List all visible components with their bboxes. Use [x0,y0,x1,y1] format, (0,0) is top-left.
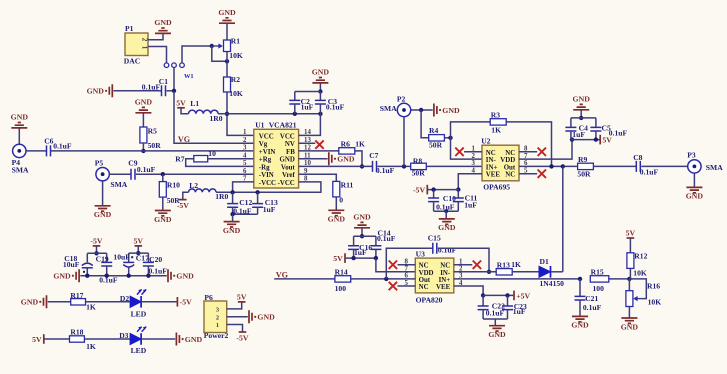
svg-text:50R: 50R [577,170,591,179]
wire R13 to D1 [512,271,539,273]
capacitor C22 0.1uF [478,295,505,319]
wire U2 pin4 to -5V rail [458,174,482,190]
wire output down to D1 [562,166,564,271]
node R3 output [549,164,553,168]
resistor R6 1K [339,139,365,154]
svg-text:R5: R5 [148,126,157,135]
svg-text:2: 2 [141,38,149,42]
svg-text:W1: W1 [184,73,194,80]
power port GND above P4 [11,113,29,128]
wire U1 pin8 to -VCC rail [216,182,321,192]
wire C8 to P3 [641,165,687,167]
wire top bus C2 C3 [295,91,321,93]
svg-text:L2: L2 [189,181,198,190]
svg-text:10K: 10K [229,89,243,98]
wire R14 to U3 pin6 [351,278,416,280]
wire R7 right to U1 pin4 [208,158,254,160]
svg-text:C20: C20 [149,255,162,264]
wire C14 C16 bottom bus [346,257,376,259]
wire P6 pin3 to 5V [227,302,242,309]
svg-text:R18: R18 [70,327,83,336]
wire node to R16 [628,279,630,291]
svg-text:R11: R11 [341,181,354,190]
svg-text:GND: GND [328,215,346,224]
svg-text:0.1uF: 0.1uF [640,168,659,177]
node C15 IN- [487,270,491,274]
svg-text:1K: 1K [491,126,501,135]
wire GND to R17 [48,301,71,303]
svg-text:0.1uF: 0.1uF [53,141,72,150]
svg-text:NC: NC [419,263,429,270]
capacitor C13 1uF [252,192,278,214]
svg-text:OPA820: OPA820 [416,296,443,305]
svg-text:C7: C7 [369,151,378,160]
svg-text:Vg: Vg [259,141,268,148]
svg-text:-5V: -5V [180,298,192,307]
svg-text:50R: 50R [148,141,162,150]
svg-text:0.1uF: 0.1uF [326,103,345,112]
svg-text:R10: R10 [167,180,180,189]
wire GND to top bus [361,228,363,236]
resistor R13 1K [496,260,521,275]
svg-text:GND: GND [154,18,172,27]
svg-text:GND: GND [185,335,203,344]
svg-text:IN+: IN+ [486,164,498,171]
svg-text:NC: NC [486,150,496,157]
resistor R8 50R [411,157,427,178]
capacitor C17 10uF polarized [113,253,149,276]
svg-text:P6: P6 [204,293,213,302]
capacitor C7 0.1uF [369,151,394,175]
wire R10 to GND [162,197,164,210]
wire R17 to D2 [86,301,131,303]
power port GND left of cap bank [53,269,79,282]
wire P6 pin2 to GND [227,316,248,318]
svg-text:Out: Out [419,277,431,284]
svg-text:5V: 5V [626,229,636,238]
svg-text:0.1uF: 0.1uF [377,234,396,243]
connector P6 Power2 [204,293,229,340]
svg-text:2: 2 [472,153,476,160]
capacitor C18 10uF polarized [63,253,93,275]
svg-text:3: 3 [243,145,247,152]
jumper W1 pads [164,63,193,80]
wire to GND below C12 [232,214,234,221]
node C16 bottom [351,256,355,260]
svg-text:-5V: -5V [236,334,248,343]
resistor R10 50R [159,180,180,204]
wire 5V to L1 [181,108,189,114]
svg-text:1uF: 1uF [263,205,276,214]
svg-text:FB: FB [286,149,295,156]
svg-text:U2: U2 [481,136,490,145]
node R4 R3 junction [448,136,452,140]
wire R8 to U2 pin3 [426,165,482,167]
power port GND left of R17 [21,295,47,308]
wire D1 to output drop [551,271,563,273]
node C17 C20 top [136,251,140,255]
node C21 R15 [578,277,582,281]
wire W1 pad3 to R1 wiper [182,46,212,63]
connector P3 SMA [687,151,723,173]
node C4 C5 top [579,116,583,120]
connector P5 SMA [95,158,128,189]
resistor R14 100 [335,268,351,293]
svg-text:1uF: 1uF [301,103,314,112]
svg-text:3: 3 [216,306,219,313]
svg-text:GND: GND [176,272,194,281]
power port 5V above C17 C20 [134,237,144,246]
svg-text:GND: GND [53,272,71,281]
node cap bus top [318,89,322,93]
node R1 bottom [225,59,229,63]
wire U3 pin3 to R15 node [454,278,580,280]
wire P1 pin2 to GND [148,33,163,39]
capacitor C4 1uF [565,118,588,140]
svg-text:GND: GND [621,322,639,331]
wire U1 pin12 to R6 [299,150,339,152]
svg-text:R8: R8 [413,157,422,166]
LED D3 [119,327,147,355]
svg-text:GND: GND [257,313,275,322]
wire VDD bus to U3 pin7 [376,258,415,272]
svg-text:GND: GND [442,106,460,115]
power port GND above C2 C3 [312,68,330,83]
resistor R18 1K [70,327,96,350]
svg-text:GND: GND [488,330,506,339]
svg-text:1R0: 1R0 [215,192,228,201]
svg-text:100: 100 [593,284,605,293]
svg-text:IN+: IN+ [439,277,451,284]
wire P2 down to main line [403,117,405,167]
wire to GND below C10 [445,211,447,219]
wire C14 C16 top bus [354,235,376,237]
capacitor C12 0.1uF [227,192,252,215]
node R10 tap [161,172,165,176]
capacitor C5 0.1uF [590,118,627,140]
node C20 bottom [146,274,150,278]
node C10 GND [444,209,448,213]
svg-text:SMA: SMA [706,163,723,172]
power port -5V right of D2 [177,297,192,307]
node rail C2 [293,112,297,116]
svg-text:R15: R15 [591,268,604,277]
svg-text:VCC: VCC [280,133,295,140]
capacitor C23 1uF [502,295,527,319]
svg-text:NC: NC [505,172,515,179]
wire P3 shield to GND [693,173,695,187]
wire U1 pin10 Vout to C7 [299,165,372,167]
wire node to U2 pin2 [451,138,483,159]
node C19 bottom [105,274,109,278]
wire C7 to R8 [378,165,411,167]
wire -5V to top bus [96,246,98,253]
svg-text:P5: P5 [95,158,104,167]
connector P2 SMA [380,95,411,117]
svg-text:10K: 10K [229,51,243,60]
svg-text:IN-: IN- [440,270,451,277]
power port -5V above C18 C19 [90,237,102,246]
potentiometer R1 10K [212,36,243,60]
node R6 Vout [360,164,364,168]
no-connect X on U2 pin1 [455,148,463,156]
svg-text:1: 1 [216,322,219,329]
svg-text:P3: P3 [687,151,696,160]
wire D3 to GND [141,338,175,340]
node -VCC rail C13 [255,190,259,194]
svg-text:GND: GND [154,215,172,224]
svg-text:R12: R12 [634,252,647,261]
svg-text:10uF: 10uF [63,260,80,269]
power port GND above R1 [218,8,236,23]
svg-text:1: 1 [141,46,149,50]
power port -5V at L2 [177,200,189,211]
svg-text:GND: GND [135,98,153,107]
wire U1 pin9 Vref to R11 [299,174,337,181]
resistor R3 1K [490,110,506,134]
svg-text:D1: D1 [540,257,549,266]
svg-text:0.1uF: 0.1uF [137,165,156,174]
svg-text:0.1uF: 0.1uF [438,246,457,255]
wire R5 to input line [142,143,144,151]
wire C4 C5 bottom bus to 5V [571,139,600,141]
svg-text:U1: U1 [255,120,264,129]
wire Out up to C15 [386,248,432,279]
svg-text:VDD: VDD [500,157,515,164]
svg-text:1: 1 [243,129,247,136]
svg-text:VCC: VCC [259,133,274,140]
wire R16 to GND [628,307,630,319]
wire cap bank bottom bus [80,275,167,277]
svg-text:10K: 10K [633,269,647,278]
wire C9 to U1 pin6 [136,173,254,175]
wire C10 C11 bottom bus [434,210,459,212]
wire D2 to -5V [141,301,176,303]
svg-text:Power2: Power2 [204,331,229,340]
wire C15 to IN- node [438,248,489,272]
wire U2 pin1 stub [464,151,482,153]
wire GND to R1 top [226,23,228,40]
svg-text:C8: C8 [633,153,642,162]
node C17 bottom [127,274,131,278]
svg-text:10uF: 10uF [113,253,130,262]
svg-text:10: 10 [208,149,216,158]
wire P2 to node [411,109,433,111]
capacitor C21 0.1uF [575,279,602,317]
capacitor C1 0.1uF [142,77,168,96]
svg-text:GND: GND [571,321,589,330]
wire 5V to top bus [137,246,139,253]
svg-text:D3: D3 [119,331,128,340]
svg-text:0.1uF: 0.1uF [149,267,168,276]
svg-text:GND: GND [11,113,29,122]
svg-text:1uF: 1uF [464,201,477,210]
ground GND below R16 [621,318,639,331]
power port GND above P1 [154,18,172,33]
wire -5V rail [427,189,458,191]
capacitor C9 0.1uF [128,159,155,180]
capacitor C16 1uF [348,236,372,258]
ground GND below C10 C11 [438,219,456,232]
power port GND right of P2 [434,104,460,117]
wire R15 to divider node [609,278,630,280]
svg-text:U3: U3 [416,250,425,259]
svg-text:1K: 1K [355,139,365,148]
svg-text:D2: D2 [120,294,129,303]
svg-text:-VIN: -VIN [259,172,274,179]
svg-text:50R: 50R [412,169,426,178]
power port GND above C14 C16 [353,213,371,228]
wire C17 C20 top bus [129,252,149,254]
svg-text:SMA: SMA [380,104,397,113]
svg-text:R4: R4 [429,126,438,135]
wire GND to R5 [142,113,144,127]
svg-text:C21: C21 [585,294,598,303]
wire R6 to Vout line [355,151,362,167]
capacitor C20 0.1uF [143,253,167,276]
ground GND below P5 [94,206,112,219]
wire GND to C1 [114,90,162,92]
svg-text:C19: C19 [96,255,109,264]
capacitor C6 0.1uF [44,137,72,157]
wire P5 to C9 [109,173,130,175]
wire C3 down to U1 pin14 [299,104,321,135]
svg-text:GND: GND [218,8,236,17]
svg-text:R7: R7 [175,155,184,164]
potentiometer R16 10K [626,279,661,307]
no-connect X on U3 pin5 [389,282,397,290]
wire U3 pin8 stub [398,264,416,266]
wire L2 to -5V port [183,192,189,199]
node C5 bottom [594,137,598,141]
wire W1 pad2 to C1 node [173,68,175,91]
node R5 input line [141,149,145,153]
wire R1 to R2 [226,52,228,78]
svg-text:5: 5 [243,160,247,167]
svg-text:SMA: SMA [12,165,29,174]
wire 5V to R12 [629,238,631,253]
svg-text:GND: GND [573,95,591,104]
svg-text:1K: 1K [86,342,96,351]
power port 5V at P6 pin3 [237,293,247,302]
svg-text:P1: P1 [125,24,134,33]
wire R18 to D3 [84,338,130,340]
capacitor C2 1uF [289,92,313,114]
svg-text:C1: C1 [159,77,168,86]
power port -5V at P6 pin1 [236,332,248,343]
svg-text:GND: GND [438,223,456,232]
wire U2 pin8 stub [519,151,537,153]
svg-text:NC: NC [419,284,429,291]
wire C1 to VG node [167,90,175,92]
svg-text:GND: GND [87,87,105,96]
svg-text:-5V: -5V [90,237,102,246]
ground GND below C21 [571,316,589,329]
no-connect X on U3 pin1 [473,261,481,269]
svg-text:1K: 1K [86,303,96,312]
ground GND below P3 [686,187,704,200]
wire VCC rail L1 to C3/U1 pin14 [218,113,320,115]
op-amp U1 VCA821 [243,120,311,188]
wire P6 pin1 to -5V [227,325,243,333]
resistor R17 1K [70,291,95,312]
svg-text:SMA: SMA [110,180,127,189]
svg-text:+5V: +5V [516,291,530,300]
connector P1 (DAC) [124,24,149,65]
power port GND left of C1 [87,84,113,97]
svg-text:VG: VG [178,135,191,144]
svg-text:P2: P2 [397,95,406,104]
svg-text:LED: LED [131,346,147,355]
svg-text:0: 0 [339,196,343,205]
svg-text:10K: 10K [648,297,662,306]
resistor R11 0 [333,181,354,205]
wire U3 pin2 to R13 [454,271,496,273]
power port GND above C4 C5 [573,95,591,110]
no-connect X on U3 pin8 [389,261,397,269]
svg-text:6: 6 [243,168,247,175]
svg-text:1uF: 1uF [513,307,526,316]
svg-text:R13: R13 [497,260,510,269]
resistor R15 100 [590,268,609,293]
svg-text:1N4150: 1N4150 [540,279,565,288]
power port 5V above R12 [626,229,636,238]
no-connect X on U2 pin5 [538,170,546,178]
svg-text:C15: C15 [428,234,441,243]
connector P4 SMA [12,144,29,174]
power port 5V left of R18 [32,334,44,344]
svg-text:DAC: DAC [124,56,140,65]
svg-text:2: 2 [243,137,247,144]
svg-text:R17: R17 [70,291,83,300]
resistor R4 50R [429,126,445,149]
svg-text:GND: GND [21,298,39,307]
ground GND below R10 [154,211,172,224]
svg-text:L1: L1 [190,99,199,108]
wire R1 wiper to bottom [212,46,227,61]
wire GND to P4 [18,128,20,144]
power port +5V at C22 C23 [514,291,531,301]
svg-text:+Rg: +Rg [259,157,272,164]
node -VCC rail C12 [230,190,234,194]
wire P2 node to R4 [421,110,429,138]
node R1 wiper junction [210,44,214,48]
ground GND below C12 [223,222,241,235]
capacitor C10 0.1uF [428,190,456,212]
svg-text:1uF: 1uF [354,248,367,257]
node P2 drop on main line [402,164,406,168]
node C1 VG [172,89,176,93]
wire R12 to node [629,268,631,279]
wire node to R10 [162,174,164,181]
wire GND to cap bus [319,83,321,92]
svg-text:3: 3 [472,160,476,167]
capacitor C11 1uF [453,190,478,212]
diode D1 1N4150 [539,257,564,288]
wire U1 pin13 stub [299,142,316,144]
node divider [627,277,631,281]
power port GND above R5 [135,98,153,113]
capacitor C8 0.1uF [633,153,658,177]
wire U3 pin4 VEE to bus [454,286,483,295]
node C18 C19 top [94,251,98,255]
power port 5V at L1 [176,99,186,108]
wire C12 C13 bottom bus [233,213,258,215]
node C10 top [431,187,435,191]
resistor R7 10 (Rg) [175,149,216,163]
svg-text:VDD: VDD [419,270,434,277]
svg-text:Vout: Vout [281,164,296,171]
